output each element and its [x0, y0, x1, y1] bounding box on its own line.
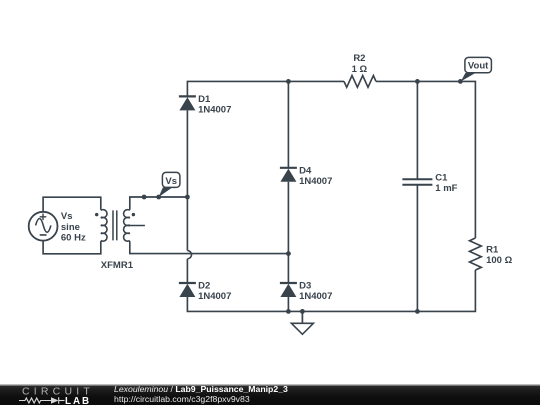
resistor R1: [470, 238, 482, 270]
wire secondary bottom: [130, 241, 289, 254]
svg-text:C1: C1: [435, 173, 448, 184]
svg-text:1N4007: 1N4007: [198, 105, 231, 116]
svg-text:XFMR1: XFMR1: [101, 260, 134, 271]
diode D1: [179, 96, 196, 110]
wire secondary top: [130, 197, 188, 210]
label D2 designator: [198, 281, 210, 292]
svg-text:100 Ω: 100 Ω: [486, 255, 512, 266]
junction secondary bottom / D3-D4 column: [286, 251, 291, 256]
label D4 designator: [299, 165, 312, 176]
label C1 designator: [435, 173, 448, 184]
junction ground / bottom rail: [300, 309, 305, 314]
logo diode triangle: [51, 397, 59, 404]
junction Vout flag attach / top rail: [458, 79, 463, 84]
svg-text:1N4007: 1N4007: [198, 291, 231, 302]
diode D3: [280, 283, 297, 297]
circuitlab logo schematic glyph: [19, 397, 65, 404]
label R2 designator: [353, 53, 365, 64]
svg-text:R1: R1: [486, 244, 499, 255]
svg-text:Vs: Vs: [165, 176, 177, 187]
diode D2: [179, 283, 196, 297]
wire top rail right segment: [376, 81, 475, 238]
svg-text:1N4007: 1N4007: [299, 291, 332, 302]
svg-text:R2: R2: [353, 53, 365, 64]
svg-text:D2: D2: [198, 281, 210, 292]
wire D1 to Vs node: [186, 110, 188, 250]
junction secondary top wire segment: [142, 195, 147, 200]
transformer phase dot primary: [95, 213, 98, 216]
flag Vout: [461, 57, 492, 81]
wire C1 column top: [416, 81, 418, 179]
plus sign: [40, 214, 47, 221]
label D3 designator: [299, 281, 311, 292]
label R1 value 100 ohm: [486, 255, 512, 266]
capacitor C1: [402, 179, 432, 184]
label D1 designator: [198, 94, 211, 105]
wire source loop top: [43, 197, 101, 212]
svg-text:D1: D1: [198, 94, 211, 105]
svg-text:D4: D4: [299, 165, 312, 176]
junction C1 bottom / bottom rail: [415, 309, 420, 314]
junction C1 top / top rail: [415, 79, 420, 84]
label D3 value 1N4007: [299, 291, 332, 302]
svg-text:1 Ω: 1 Ω: [352, 64, 368, 75]
wire D3 to bottom rail: [287, 297, 289, 311]
label XFMR1: [101, 260, 134, 271]
svg-text:http://circuitlab.com/c3g2f8px: http://circuitlab.com/c3g2f8pxv9v83: [114, 394, 250, 404]
wire right column bottom: [187, 270, 475, 311]
svg-text:1 mF: 1 mF: [435, 183, 457, 194]
wire Vs node to D2: [186, 259, 188, 283]
transformer phase dot secondary: [132, 213, 135, 216]
transformer XFMR1 secondary winding: [124, 210, 130, 242]
sine wave: [36, 219, 51, 233]
junction D3 anode / bottom rail: [286, 309, 291, 314]
junction node Vs / D1-D2 column: [185, 195, 190, 200]
svg-text:60 Hz: 60 Hz: [61, 233, 86, 244]
label D2 value 1N4007: [198, 291, 231, 302]
svg-text:D3: D3: [299, 281, 311, 292]
voltage source Vs circle: [29, 212, 58, 241]
junction D4 cathode / top rail: [286, 79, 291, 84]
svg-text:1N4007: 1N4007: [299, 176, 332, 187]
wire top rail left segment: [187, 81, 344, 96]
diode D4: [280, 168, 297, 182]
wire middle column D4 top: [287, 81, 289, 167]
minus sign: [40, 234, 47, 236]
label D1 value 1N4007: [198, 105, 231, 116]
wire source loop bottom: [43, 240, 101, 253]
resistor R2: [344, 76, 376, 88]
label C1 value 1 mF: [435, 183, 457, 194]
transformer XFMR1 primary winding: [101, 210, 107, 242]
footer bar: [0, 384, 540, 405]
wire D4 to mid node: [287, 182, 289, 284]
svg-text:LAB: LAB: [65, 396, 91, 405]
label D4 value 1N4007: [299, 176, 332, 187]
wire hop over secondary bottom wire: [187, 251, 191, 259]
ground: [291, 311, 313, 334]
transformer core lines: [113, 210, 117, 240]
transformer center tap stub: [128, 225, 145, 227]
label source Vs sine 60 Hz: [61, 211, 86, 244]
wire C1 column bottom: [416, 185, 418, 312]
svg-text:Lexouleminou / Lab9_Puissance_: Lexouleminou / Lab9_Puissance_Manip2_3: [114, 384, 288, 394]
junction Vs flag attach: [156, 195, 161, 200]
svg-text:Vout: Vout: [468, 61, 489, 72]
label R1 designator: [486, 244, 499, 255]
flag Vs: [159, 172, 180, 197]
svg-text:sine: sine: [61, 222, 80, 233]
svg-text:Vs: Vs: [61, 211, 73, 222]
label R2 value 1 ohm: [352, 64, 368, 75]
